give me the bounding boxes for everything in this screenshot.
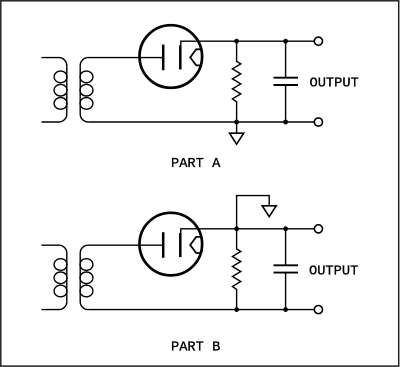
output terminal A top: [314, 37, 322, 45]
transformer T2 primary winding: [42, 245, 68, 309]
tube V2 cathode: [179, 233, 182, 257]
tube V2 plate: [162, 232, 165, 258]
junction dot A top-resistor: [234, 39, 239, 44]
junction dot B top-capacitor: [283, 226, 288, 231]
wire cathode lead to top rail B: [181, 229, 314, 233]
tube V1 envelope: [140, 25, 203, 88]
wire cathode lead to top rail A: [181, 41, 314, 45]
svg-text:PART B: PART B: [171, 341, 220, 356]
transformer T1 primary winding: [42, 58, 68, 122]
tube V1 cathode: [179, 45, 182, 69]
tube V1 filament: [190, 49, 201, 65]
capacitor C1 plates: [274, 78, 299, 85]
wire bottom rail A: [88, 121, 314, 123]
junction dot A bottom-resistor: [234, 120, 239, 125]
resistor R1: [232, 41, 240, 122]
junction dot A top-capacitor: [283, 39, 288, 44]
capacitor C2 top lead: [285, 229, 287, 265]
resistor R2: [232, 229, 240, 310]
output terminal B bottom: [314, 306, 322, 314]
transformer T1 secondary winding: [80, 58, 163, 122]
svg-text:OUTPUT: OUTPUT: [309, 265, 358, 280]
ground stub A: [236, 122, 238, 133]
capacitor C1 bottom lead: [285, 85, 287, 122]
svg-text:OUTPUT: OUTPUT: [310, 76, 359, 91]
output terminal A bottom: [314, 118, 322, 126]
junction dot A bottom-capacitor: [283, 120, 288, 125]
junction dot B bottom-capacitor: [283, 307, 288, 312]
ground symbol B: [262, 206, 276, 217]
svg-text:PART A: PART A: [171, 157, 221, 172]
capacitor C2 plates: [274, 265, 299, 272]
wire ground riser B: [237, 196, 270, 229]
capacitor C2 bottom lead: [285, 273, 287, 310]
capacitor C1 top lead: [285, 41, 287, 77]
tube V2 filament: [190, 237, 201, 253]
wire bottom rail B: [88, 309, 314, 311]
ground symbol A: [230, 133, 244, 144]
tube V1 plate: [162, 45, 165, 71]
tube V2 envelope: [140, 213, 203, 276]
junction dot B top-resistor: [234, 226, 239, 231]
output terminal B top: [314, 225, 322, 233]
transformer T2 secondary winding: [80, 245, 163, 309]
junction dot B bottom-resistor: [234, 307, 239, 312]
